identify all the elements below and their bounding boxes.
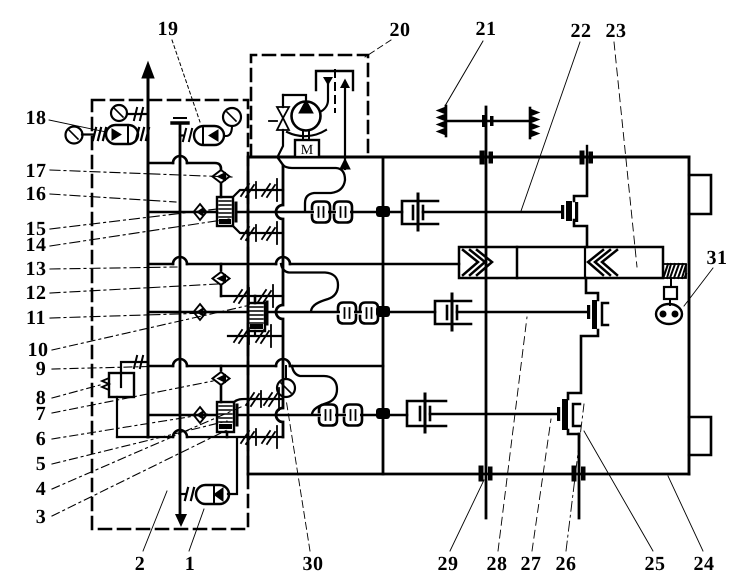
clutch 2 outer bracket — [602, 303, 608, 325]
pressure gauge row 3 (item 30 target) — [277, 379, 295, 397]
svg-text:24: 24 — [694, 553, 715, 575]
coupling flange on V7 at spring line — [482, 115, 486, 127]
ticks left of accumulator — [93, 128, 106, 140]
actuator rod row 3 — [430, 413, 557, 416]
svg-text:21: 21 — [476, 18, 497, 40]
svg-text:28: 28 — [487, 553, 508, 575]
check valve row 3 — [213, 372, 230, 385]
junction blob row3 on V6 — [376, 408, 390, 419]
clutch 1 rod end plate — [561, 205, 564, 219]
ticks left of accumulator 19 — [183, 129, 192, 141]
relief valve box (item 8) — [109, 373, 134, 397]
shaft V7 — [485, 107, 488, 518]
rail V6 — [382, 157, 385, 474]
auxiliary pump oval (item 1) — [196, 485, 229, 504]
double-ball handle (item 31 target) — [656, 304, 682, 324]
shaft stub above bus — [586, 146, 588, 157]
svg-text:5: 5 — [36, 453, 47, 475]
upper gauge pipe to V1 — [127, 113, 148, 115]
coupling ticks on relief pipe — [134, 356, 143, 368]
pipe gauge to accumulator — [82, 133, 94, 135]
hatched anchor block right of bar — [663, 264, 686, 278]
coupling ticks left of pump oval — [185, 488, 194, 500]
supply pipe row 1 — [236, 211, 402, 214]
pressure valve row 3 — [217, 402, 234, 432]
svg-text:26: 26 — [556, 553, 577, 575]
up arrow under bus — [340, 159, 350, 169]
pump top pipe — [283, 95, 306, 101]
svg-text:19: 19 — [158, 18, 179, 40]
clutch 3 plates — [562, 399, 568, 430]
shift knob stem — [669, 299, 671, 305]
orifice d row 1 — [262, 222, 277, 244]
supply pipe row 2 — [266, 311, 435, 314]
row3 top branch line — [148, 365, 383, 368]
main pump circle (in box 20) — [292, 102, 321, 131]
orifice c row 1 — [241, 225, 256, 241]
hose row 1 — [283, 165, 345, 210]
orifice c row 3 — [241, 429, 256, 445]
lower orifice line row 1 — [233, 226, 283, 233]
housing tab lower right — [689, 417, 711, 455]
up arrow on riser — [340, 79, 350, 89]
svg-text:9: 9 — [36, 358, 47, 380]
motor box — [295, 140, 319, 157]
V4 top jog to bus — [278, 158, 283, 165]
orifice a row 2 — [234, 288, 249, 304]
valve outlet bar row 1 — [235, 203, 238, 221]
clutch 2 rod end plate — [587, 305, 590, 319]
bottom boundary line — [248, 473, 689, 476]
svg-text:7: 7 — [36, 403, 47, 425]
arrow up at top of V1 — [142, 62, 154, 78]
small check valve row 3 — [194, 407, 207, 423]
svg-text:M: M — [301, 143, 314, 158]
upper orifice line row 3 — [234, 399, 283, 402]
quick couplers row 1 — [312, 202, 352, 223]
quick couplers row 3 — [319, 405, 362, 426]
housing tab upper right — [689, 175, 711, 214]
clutch 1 housing steps — [574, 157, 587, 247]
row1 top branch line — [148, 163, 221, 170]
lower orifice line row 2 — [228, 331, 283, 336]
clutch 3 bottom step — [568, 430, 579, 434]
orifice b row 2 — [258, 285, 273, 307]
svg-text:6: 6 — [36, 428, 47, 450]
cylinder 2 — [435, 301, 471, 324]
valve outlet bar row 3 — [236, 405, 239, 425]
junction blob row1 on V6 — [376, 206, 390, 217]
relief valve top pipe to V1 — [121, 362, 148, 373]
svg-text:22: 22 — [571, 20, 592, 42]
relief valve (hourglass) in box 20 — [277, 107, 289, 118]
check valve row 2 — [213, 272, 230, 285]
rail V4 with hops over actuator lines — [276, 166, 283, 437]
housing right wall (item 24) — [688, 157, 691, 474]
row2 top branch line — [148, 263, 459, 266]
flange pair on bottom line at V8 — [572, 466, 577, 482]
clutch 3 outer bracket — [573, 404, 580, 426]
pilot line row 1 — [148, 211, 217, 214]
clutch 2 housing steps — [568, 278, 598, 399]
svg-text:29: 29 — [438, 553, 459, 575]
pump oval riser to valve row 3 — [228, 438, 237, 494]
riser from bus in box 20 — [344, 87, 346, 157]
orifice a row 3 — [246, 391, 261, 407]
hose row 3 — [292, 366, 337, 414]
main supply line V1 — [147, 66, 150, 437]
accumulator oval (item 18 target) — [106, 125, 138, 144]
upper gauge over accumulator — [111, 105, 127, 121]
svg-text:12: 12 — [26, 282, 47, 304]
small check valve row 1 — [194, 204, 207, 220]
pump outlet pipe — [320, 84, 328, 112]
svg-text:11: 11 — [26, 307, 46, 329]
orifice b row 1 — [262, 179, 277, 201]
link to shift knob — [670, 278, 672, 287]
pressure valve row 1 — [217, 197, 233, 226]
hop of row2 top line over V2 — [173, 257, 187, 264]
vertical line V2 — [179, 123, 182, 515]
flange pair on bottom line at V7 — [479, 466, 484, 482]
branch down to check valve row 2 — [220, 264, 223, 270]
svg-text:16: 16 — [26, 183, 47, 205]
right spring — [530, 108, 539, 138]
small check valve row 2 — [194, 304, 207, 320]
valve outlet bar row 2 — [266, 302, 269, 324]
down arrow on pump outlet — [323, 77, 333, 86]
dashed enclosure box (left unit, item 2) — [92, 100, 248, 529]
jog line to valve row 2 with orifices — [221, 295, 283, 297]
junction blob row2 on V6 — [376, 306, 390, 317]
svg-text:18: 18 — [26, 107, 47, 129]
svg-text:25: 25 — [645, 553, 666, 575]
clutch 1 plates — [566, 201, 572, 221]
plugged port cap on top of V2 — [172, 118, 188, 123]
pilot line row 2 — [148, 311, 248, 314]
spring of relief valve — [102, 378, 109, 390]
clutch 3 rod end plate — [557, 407, 560, 421]
svg-text:1: 1 — [185, 553, 196, 575]
svg-text:13: 13 — [26, 258, 47, 280]
left spring — [437, 106, 446, 136]
gearshift bar (item 23) — [459, 247, 663, 278]
pump shaft — [303, 131, 309, 140]
actuator rod row 1 — [423, 211, 561, 214]
ticks right of accumulator — [136, 128, 149, 140]
svg-text:4: 4 — [36, 478, 47, 500]
flange pair on bus at V7 — [480, 151, 485, 165]
svg-text:30: 30 — [303, 553, 324, 575]
dashed enclosure box (pump unit, item 20) — [251, 55, 368, 157]
shaft V8 below clutch 3 — [578, 434, 581, 518]
valve bottom stub row 3 — [226, 432, 229, 437]
cylinder 3 — [407, 401, 446, 426]
actuator rod row 2 — [457, 311, 587, 314]
orifice d row 3 — [262, 426, 277, 448]
hop of row3 top line over V4 — [276, 359, 290, 366]
svg-text:3: 3 — [36, 506, 47, 528]
outlet bracket — [316, 71, 353, 90]
svg-text:20: 20 — [390, 19, 411, 41]
check valve row 1 — [213, 170, 230, 183]
main pressure bus — [250, 156, 689, 159]
rail V3 — [247, 157, 250, 474]
orifice b row 3 — [264, 388, 279, 410]
svg-text:2: 2 — [135, 553, 146, 575]
relief valve bottom pipe — [116, 397, 118, 437]
valve feed stub row 2 — [254, 296, 257, 303]
hop of row3 top line over V2 — [173, 359, 187, 366]
pressure valve row 2 — [248, 303, 265, 331]
lower return line row 3 — [117, 436, 283, 438]
pipe V2 to accumulator 19 — [180, 134, 183, 136]
flange pair on bus at clutch shaft — [580, 151, 585, 165]
drain arrow at bottom of V2 — [175, 514, 187, 527]
svg-text:31: 31 — [707, 247, 728, 269]
svg-text:14: 14 — [26, 234, 47, 256]
hose row 2 — [281, 264, 338, 311]
spring line (item 21 row) — [447, 120, 528, 122]
left pressure gauge — [66, 127, 83, 144]
cylinder 1 — [402, 201, 438, 224]
svg-text:27: 27 — [521, 553, 542, 575]
pipe pump oval to V2 — [180, 493, 186, 495]
hop of row2 top line over V4 — [276, 257, 290, 264]
shift knob square — [664, 287, 677, 299]
branch down to check valve row 3 — [220, 366, 223, 370]
clutch 2 plates — [592, 300, 597, 329]
accumulator oval (item 19 target) — [194, 126, 224, 145]
pilot line row 3 — [148, 414, 217, 417]
gauge right of accumulator 19 — [223, 108, 241, 126]
upper orifice line row 1 — [233, 190, 283, 197]
orifice a row 1 — [241, 182, 256, 198]
hop of return line over V2 — [173, 430, 187, 437]
dashed control linkage — [334, 70, 336, 112]
supply pipe row 3 — [237, 414, 407, 417]
svg-text:17: 17 — [26, 160, 47, 182]
orifice d row 2 — [256, 325, 271, 347]
pump suction pipe — [278, 95, 283, 156]
hop of row1 top line over V2 — [173, 156, 187, 163]
orifice c row 2 — [234, 328, 249, 344]
quick couplers row 2 — [338, 303, 378, 324]
svg-text:23: 23 — [606, 20, 627, 42]
